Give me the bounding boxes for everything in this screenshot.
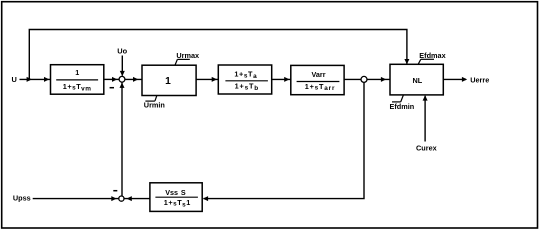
wire Upss to summer S2 <box>33 196 119 201</box>
input label Uo <box>117 47 127 56</box>
stabilizer feedback wire from summer S2 up into S1 <box>120 82 125 196</box>
block NL nonlinearity <box>390 64 443 95</box>
block G5 stabilizer Vss S/(1+sTs1) <box>150 183 202 212</box>
wire Curex into block NL bottom <box>423 95 428 141</box>
wire U to block G1 <box>20 77 51 82</box>
svg-text:Vss S: Vss S <box>165 188 186 197</box>
wire block G2 to block G3 <box>196 77 218 82</box>
feedback wire from U junction to NL top <box>29 30 409 80</box>
feedback wire node N1 down to block G5 <box>203 82 364 201</box>
input label Upss <box>13 193 31 202</box>
output wire block NL to Uerre <box>443 77 467 82</box>
svg-text:1: 1 <box>165 76 171 87</box>
svg-text:Uerre: Uerre <box>470 76 489 85</box>
limit label Efdmin <box>390 95 415 111</box>
summing junction S2 <box>119 196 124 201</box>
block G3 lead-lag (1+sTa)/(1+sTb) <box>218 65 271 94</box>
input label Curex <box>416 143 437 152</box>
pick-off node N1 <box>361 76 367 82</box>
svg-text:Uo: Uo <box>117 47 127 56</box>
svg-text:1+sTs1: 1+sTs1 <box>164 198 191 208</box>
svg-text:NL: NL <box>413 76 423 85</box>
input label U <box>12 75 17 84</box>
svg-text:Curex: Curex <box>416 143 437 152</box>
summing junction S1 <box>119 76 125 82</box>
wire block G3 to block G4 <box>272 77 291 82</box>
output label Uerre <box>470 76 489 85</box>
wire node N1 to block NL <box>367 77 390 82</box>
svg-text:Efdmin: Efdmin <box>390 102 415 111</box>
limit label Urmax <box>175 51 199 65</box>
block G1 voltage measurement 1/(1+sTvm) <box>51 65 104 95</box>
wire block G1 to summer S1 <box>104 77 119 82</box>
wire block G4 to node N1 <box>344 78 361 80</box>
minus sign at S1 bottom input <box>110 87 114 89</box>
block G4 amplifier Varr/(1+sTarr) <box>291 65 344 94</box>
svg-text:Upss: Upss <box>13 193 31 202</box>
wire summer S1 to block G2 <box>125 77 142 82</box>
wire block G5 to summer S2 <box>125 196 150 201</box>
svg-text:Varr: Varr <box>312 70 326 79</box>
wire Uo into summer S1 <box>120 56 125 77</box>
limit label Urmin <box>144 96 165 110</box>
svg-text:1: 1 <box>75 68 79 77</box>
minus sign at S2 left input <box>113 190 117 192</box>
node branch junction at U <box>29 78 30 80</box>
block G2 regulator gain 1 with limits <box>142 65 196 95</box>
svg-text:U: U <box>12 75 17 84</box>
limit label Efdmax <box>418 51 445 64</box>
